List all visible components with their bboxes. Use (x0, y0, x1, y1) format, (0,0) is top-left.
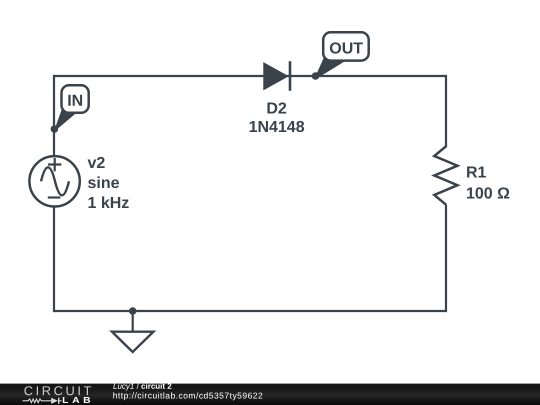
node OUT flag pointer wedge (315, 57, 346, 78)
footer bar (0, 384, 540, 405)
svg-text:IN: IN (67, 93, 83, 110)
voltage source V2 sine waveform (41, 167, 69, 195)
ground symbol triangle (112, 332, 153, 352)
label v2 (name) (87, 155, 105, 172)
svg-text:v2: v2 (87, 155, 105, 172)
CircuitLab logo diode symbol (51, 398, 61, 404)
label 1 kHz (frequency) (87, 195, 129, 212)
CircuitLab logo wordmark LAB (62, 395, 94, 405)
diode D2 cathode bar (289, 61, 292, 91)
wire top (IN corner to right corner through diode) (54, 75, 446, 77)
svg-text:1N4148: 1N4148 (249, 119, 305, 136)
node IN flag box (62, 85, 89, 113)
node OUT junction dot (312, 72, 320, 80)
label 1N4148 (value) (249, 119, 305, 136)
wire right vertical upper (corner to resistor top) (445, 75, 447, 148)
node OUT flag box (323, 32, 369, 60)
node OUT flag text (329, 40, 363, 57)
footer url (113, 390, 264, 400)
voltage source V2 plus sign (48, 158, 61, 171)
svg-text:R1: R1 (466, 165, 487, 182)
node IN flag pointer wedge (54, 107, 76, 131)
voltage source V2 minus sign (48, 196, 61, 198)
voltage source V2 circle (29, 156, 79, 206)
svg-text:http://circuitlab.com/cd5357ty: http://circuitlab.com/cd5357ty59622 (113, 390, 264, 400)
wire left vertical lower (source bottom to bottom wire) (53, 206, 55, 312)
diode D2 anode triangle (264, 63, 288, 90)
CircuitLab logo resistor squiggle (23, 399, 52, 403)
ground stem wire (132, 311, 134, 332)
CircuitLab logo wordmark CIRCUIT (24, 383, 94, 398)
svg-text:sine: sine (87, 175, 119, 192)
ground junction dot (129, 307, 137, 315)
footer title Lucy1 / circuit 2 (113, 382, 172, 391)
label R1 (name) (466, 165, 487, 182)
wire right vertical lower (resistor bottom to bottom wire) (445, 205, 447, 313)
label sine (type) (87, 175, 119, 192)
node IN flag text (67, 93, 83, 110)
resistor R1 zigzag (434, 146, 457, 204)
svg-text:OUT: OUT (329, 40, 363, 57)
wire bottom (left corner to right corner through ground node) (54, 310, 446, 312)
svg-text:1 kHz: 1 kHz (87, 195, 129, 212)
svg-text:D2: D2 (266, 100, 287, 117)
wire left vertical upper (corner to source top) (53, 75, 55, 157)
svg-text:100 Ω: 100 Ω (466, 186, 510, 203)
svg-text:LAB: LAB (62, 395, 94, 405)
label D2 (name) (266, 100, 287, 117)
node IN junction dot (51, 125, 59, 133)
label 100 Ω (value) (466, 186, 510, 203)
